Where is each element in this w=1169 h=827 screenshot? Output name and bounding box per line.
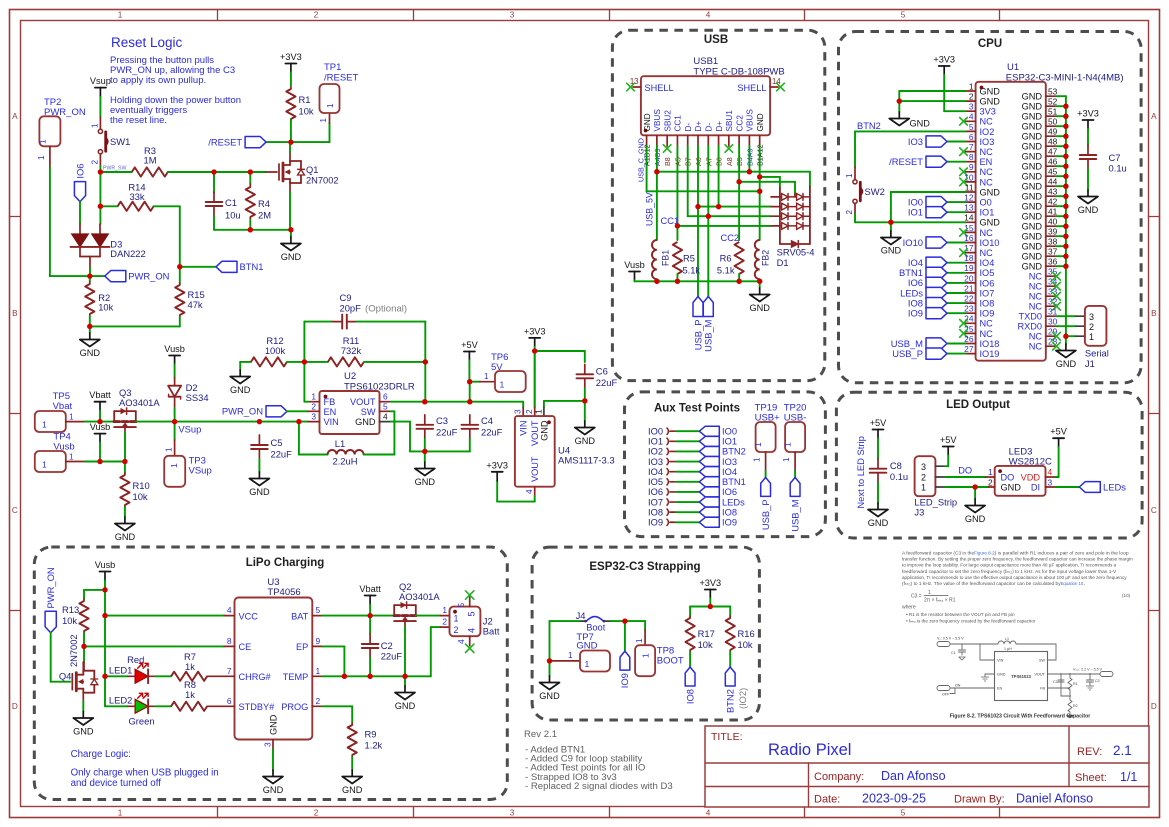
wire VSup rail to C5 [175,421,260,423]
global label IO3 aux [699,457,737,467]
global label LEDs cpu [900,287,965,298]
svg-text:10k: 10k [62,615,77,626]
svg-text:CC2: CC2 [735,115,744,132]
test point TP12 IO3 [648,457,699,467]
svg-text:IO3: IO3 [980,137,995,147]
wire +5V to J3 pin3 [947,456,949,467]
svg-text:GND: GND [1022,112,1043,122]
svg-text:EN: EN [997,687,1003,691]
test point TP14 IO5 [648,477,699,487]
transistor Q2 [394,581,440,627]
wire EP to TEMP [322,645,344,647]
wire +3V3 to C6 [535,350,585,352]
svg-text:8: 8 [227,636,232,646]
svg-text:52: 52 [1048,97,1058,107]
svg-text:22uF: 22uF [481,427,503,438]
svg-text:3: 3 [263,742,273,747]
svg-text:GND: GND [980,187,1001,197]
svg-text:PWR_SW: PWR_SW [103,165,126,171]
svg-text:C7: C7 [1109,152,1121,163]
svg-text:BOOT: BOOT [657,656,684,667]
svg-text:IO5: IO5 [648,477,663,487]
svg-text:R17: R17 [698,628,715,639]
svg-text:10k: 10k [133,491,148,502]
svg-text:1: 1 [165,447,174,452]
svg-text:1: 1 [921,482,926,492]
svg-text:45: 45 [1048,167,1058,177]
svg-text:100k: 100k [265,345,286,356]
wire Q1 source down [289,192,291,230]
svg-text:10k: 10k [698,639,713,650]
svg-text:Vusb: Vusb [95,560,116,570]
svg-text:D-: D- [684,123,693,132]
junction C5 top [257,419,262,424]
wire gnd node to U4 pin1 [544,400,585,402]
ground usb rail [759,281,761,288]
junction CC2 row [736,179,741,184]
wire J1 pin1 to gnd rail [1066,335,1076,337]
wire J4 right to TP8 node [611,620,625,622]
svg-text:2M: 2M [258,210,271,221]
junction CC1 [675,223,680,228]
junction VBUS right [747,169,752,174]
svg-text:IO3: IO3 [722,457,737,467]
wire C6 to gnd node [584,388,586,401]
svg-text:TP1: TP1 [324,62,341,73]
svg-text:4: 4 [706,11,711,20]
svg-text:1: 1 [311,392,316,402]
svg-text:22uF: 22uF [271,449,293,460]
svg-text:27: 27 [964,344,974,354]
svg-text:20pF: 20pF [340,302,362,313]
svg-text:GND: GND [415,477,436,487]
svg-text:USB_C_GND: USB_C_GND [637,138,646,182]
svg-text:GND: GND [115,532,136,542]
svg-text:Q1: Q1 [306,165,318,175]
pin 14 shell right [770,77,784,91]
svg-text:GND: GND [1022,232,1043,242]
svg-text:1: 1 [782,457,791,462]
junction C1 top [211,169,216,174]
wire R1 to /RESET node [290,120,292,142]
svg-text:to improve the loop stability.: to improve the loop stability. For large… [902,563,1117,568]
svg-text:LEDs: LEDs [1103,481,1126,492]
wire gnd rail R2 to R15 [90,325,180,327]
wire DO row [945,476,985,478]
svg-text:DAN222: DAN222 [110,248,145,259]
svg-text:C3: C3 [436,415,448,426]
svg-text:GND: GND [1022,242,1043,252]
global label IO0 aux [699,426,737,436]
svg-text:BAT: BAT [291,611,309,621]
wire L1 to SW pin [393,411,395,454]
test point TP5 [35,391,85,432]
svg-text:DI: DI [1031,482,1040,492]
svg-text:21: 21 [964,283,974,293]
svg-text:C1: C1 [225,197,237,208]
global label IO6 cpu [908,277,966,288]
svg-text:0.1u: 0.1u [1109,163,1127,174]
svg-text:6: 6 [969,132,974,142]
svg-text:SHELL: SHELL [737,83,766,93]
datasheet excerpt text block [902,551,1133,587]
svg-text:1: 1 [988,467,993,477]
svg-text:3: 3 [1048,478,1053,488]
wire to TP8 [625,620,645,622]
ground below Q4 [82,701,84,711]
wire gnd rail right [1056,96,1066,344]
svg-text:C3: C3 [1053,680,1058,684]
svg-text:22: 22 [964,294,974,304]
svg-text:3: 3 [1089,312,1094,322]
wire +5V to VDD [1058,447,1060,477]
wire +3V3 to R16 R17 [709,599,711,607]
svg-text:NC: NC [980,329,994,339]
svg-text:• R1 is the resistor between: • R1 is the resistor between the VOUT pi… [906,612,1015,617]
svg-text:22uF: 22uF [381,651,403,662]
svg-text:Aux Test Points: Aux Test Points [654,403,740,415]
svg-text:D1: D1 [777,257,789,268]
global label PWR_ON reset [105,271,126,282]
wire Q2 to J2 pin1 [416,615,441,617]
global label IO9 cpu [908,308,966,319]
svg-text:1: 1 [37,155,46,160]
svg-text:LiPo Charging: LiPo Charging [246,557,325,569]
svg-text:NC: NC [980,147,994,157]
hier label USB_P aux [761,477,771,496]
svg-text:GND: GND [1022,172,1043,182]
svg-text:GND: GND [980,86,1001,96]
svg-text:14: 14 [964,213,974,223]
svg-text:GND: GND [539,691,560,701]
wire R8 to U3 STDBY# [207,705,224,707]
resistor R4 [246,184,272,221]
svg-text:R16: R16 [738,628,755,639]
global label /RESET cpu [889,156,965,167]
connector J2 Batt [441,591,500,653]
svg-text:IO8: IO8 [648,507,663,517]
ground below Q1 [290,237,292,244]
global label IO1 aux [699,436,737,446]
ground below R10 [124,507,126,517]
svg-text:Batt: Batt [483,626,500,637]
svg-text:A: A [1151,112,1157,121]
global label LEDs aux [699,497,745,507]
svg-text:IO2: IO2 [648,447,663,457]
svg-text:IO8: IO8 [980,299,995,309]
svg-text:3V3: 3V3 [980,107,996,117]
svg-text:B: B [1151,309,1157,318]
junction rail FB2 [757,279,762,284]
svg-text:11: 11 [965,182,974,192]
wire to R13 [84,589,105,591]
svg-text:VBUS: VBUS [746,109,755,132]
svg-text:C: C [1151,506,1157,515]
junction D+ left [695,204,700,209]
wire VSup rail to VIN node [259,421,299,423]
svg-text:Radio Pixel: Radio Pixel [768,741,851,759]
test point TP17 IO8 [648,507,699,517]
svg-text:1: 1 [169,463,179,468]
svg-text:GND: GND [910,119,931,129]
svg-text:33k: 33k [129,191,144,202]
svg-text:D+: D+ [694,121,703,132]
global label /RESET [208,136,291,147]
wire TP2 down to PWR_ON row [49,167,51,276]
wire C1 to bottom rail [213,216,215,230]
capacitor C1 [206,192,241,221]
wire C8 to gnd [877,483,879,503]
svg-text:IO9: IO9 [908,308,923,319]
wire Q3 to VSup node [136,421,175,423]
junction R4 top [248,169,253,174]
svg-text:to apply its own pullup.: to apply its own pullup. [110,75,206,86]
svg-text:GND: GND [1022,222,1043,232]
test point TP1 [319,62,359,123]
svg-text:GND: GND [980,97,1001,107]
svg-text:+3V3: +3V3 [699,578,721,588]
ground cpu top left [889,112,930,129]
svg-text:(fₕₕ₂) to 1 kHz. The value of: (fₕₕ₂) to 1 kHz. The value of the feedfo… [902,581,1061,586]
capacitor C8 [870,459,908,483]
svg-text:Drawn By:: Drawn By: [954,794,1005,806]
svg-text:Vbatt: Vbatt [89,390,111,400]
svg-text:USB_M: USB_M [789,499,800,531]
wire VCC node to U3 [105,615,225,617]
svg-text:1k: 1k [185,689,195,700]
junction rail FB1 [654,279,659,284]
junction GND D1 [757,174,762,179]
svg-text:GND: GND [749,303,770,313]
svg-text:Dan Afonso: Dan Afonso [881,769,946,783]
junction pin2 gnd [897,98,902,103]
svg-text:application, TI recommends to: application, TI recommends to use the ef… [902,575,1127,580]
hier label USB_M usb block [703,297,714,352]
svg-text:TEMP: TEMP [283,672,309,682]
svg-text:38: 38 [1048,237,1058,247]
resistor R3 [132,145,168,177]
junction VBUS left [654,169,659,174]
capacitor C9 loop [304,292,425,362]
resistor R14 [100,182,153,211]
svg-text:C3 =: C3 = [911,594,922,600]
wire Vusb rail down [104,590,106,616]
svg-text:1/1: 1/1 [1120,770,1137,784]
svg-text:1k: 1k [185,661,195,672]
ic U2 TPS61023DRLR [308,371,415,434]
dashed group LED Output [836,392,1142,538]
wire pin1 pin2 gnd [899,91,965,112]
svg-text:1: 1 [500,380,505,390]
wire C7 to gnd [1087,169,1089,190]
wire R14 to BTN1 node [154,205,180,207]
svg-text:+5V: +5V [870,418,887,428]
svg-text:IO7: IO7 [648,497,663,507]
svg-text:and device turned off: and device turned off [71,778,162,789]
test point TP10 IO1 [648,437,699,447]
junction strapping +3V3 [708,604,713,609]
svg-text:NC: NC [1029,332,1043,342]
svg-text:PWR_ON: PWR_ON [45,567,56,608]
svg-text:36: 36 [1048,257,1058,267]
wire IO6 to D3 anode left [79,202,81,224]
svg-text:TXD0: TXD0 [1019,312,1043,322]
svg-text:3: 3 [921,462,926,472]
wire TP20 to USB_M [794,471,796,477]
junction C3 top [422,399,427,404]
junction CE node [81,644,86,649]
wire U2 GND pin to rail [391,421,410,423]
svg-text:BTN1: BTN1 [240,261,264,272]
svg-text:NC: NC [1029,272,1043,282]
svg-text:VOUT: VOUT [530,456,540,482]
svg-text:C4: C4 [481,415,493,426]
svg-text:4: 4 [456,639,466,644]
svg-text:VDD: VDD [1021,472,1041,482]
svg-text:GND: GND [269,714,279,735]
svg-text:Date:: Date: [814,794,840,806]
svg-text:/RESET: /RESET [889,156,923,167]
wire R12 to R11 [287,361,328,363]
svg-text:IO3: IO3 [908,136,923,147]
junction +3V3 U4 [532,348,537,353]
ic U3 TP4056 [225,577,323,750]
wire C1 vertical [213,172,215,193]
svg-text:A feedforward capacitor (C3 in: A feedforward capacitor (C3 in the [902,551,975,556]
wire R3 to C1 node [168,171,214,173]
svg-text:3: 3 [510,808,515,817]
svg-text:IO1: IO1 [648,437,663,447]
dashed group LiPo Charging [34,547,507,800]
svg-text:R6: R6 [720,254,732,264]
svg-text:Sheet:: Sheet: [1075,772,1107,784]
wire VBUS to FB1 [656,172,658,240]
svg-text:4: 4 [466,628,476,633]
svg-text:1: 1 [641,653,651,658]
svg-text:3: 3 [969,102,974,112]
svg-text:VOUT: VOUT [350,397,376,407]
svg-text:IO6: IO6 [980,278,995,288]
svg-text:R2: R2 [1073,704,1078,708]
capacitor C7 [1080,145,1127,174]
svg-text:IO18: IO18 [980,339,1000,349]
svg-text:BTN2: BTN2 [857,121,881,131]
wire R2 to gnd rail [89,316,91,326]
wire FB loop down [303,362,305,402]
svg-text:where: where [902,605,916,611]
svg-text:5.1k: 5.1k [717,266,735,276]
svg-text:+5V: +5V [461,340,478,350]
wire J4 left to TP7 node [550,620,580,622]
svg-text:NC: NC [980,117,994,127]
svg-text:AO3401A: AO3401A [399,591,440,602]
svg-text:+3V3: +3V3 [524,326,546,336]
wire Q2 gate down [404,627,406,677]
wire R13 to CE node [83,633,85,646]
wire +5V to C8 [877,439,879,459]
svg-text:+3V3: +3V3 [1077,109,1099,119]
svg-text:4: 4 [227,605,232,615]
svg-text:18: 18 [964,253,974,263]
svg-text:2023-09-25: 2023-09-25 [862,792,926,806]
svg-text:GND: GND [575,436,596,446]
resistor R2 [85,282,113,316]
svg-text:NC: NC [980,228,994,238]
svg-text:GND: GND [355,417,376,427]
svg-text:GND: GND [73,727,94,737]
svg-text:5: 5 [901,808,906,817]
svg-text:EP: EP [296,642,308,652]
svg-text:2: 2 [969,92,974,102]
test point TP19 [753,403,781,472]
resistor R1 [286,87,314,121]
svg-text:4: 4 [706,808,711,817]
svg-text:1: 1 [753,442,763,447]
svg-text:NC: NC [980,177,994,187]
svg-text:GND: GND [643,113,652,131]
svg-text:(Optional): (Optional) [365,304,407,315]
svg-text:A8: A8 [725,157,734,166]
svg-text:5: 5 [456,603,466,608]
junction TP4 Vusb [97,459,102,464]
wire R15 to gnd rail [179,317,181,326]
svg-text:49: 49 [1048,127,1058,137]
wire +3V3 to R1 [290,73,292,87]
wire R4 node to Q1 gate [250,171,266,173]
global label IO10 cpu [903,237,966,248]
svg-text:6: 6 [383,392,388,402]
svg-text:GND: GND [1022,192,1043,202]
resistor R9 [348,723,383,757]
junction Q1 source rail [288,227,293,232]
svg-text:4: 4 [1048,467,1053,477]
junction C3 bottom [422,449,427,454]
svg-text:20: 20 [964,273,974,283]
svg-text:14: 14 [772,77,781,86]
svg-text:IO0: IO0 [722,427,737,437]
test point TP13 IO4 [648,467,699,477]
svg-text:10k: 10k [98,302,113,313]
junction R10 top [122,459,127,464]
junction R11 left [302,359,307,364]
svg-text:CE: CE [239,642,252,652]
svg-text:1: 1 [326,103,335,108]
hier label BTN2 strapping [725,652,749,713]
svg-text:SW1: SW1 [110,136,130,147]
svg-text:2.2uH: 2.2uH [332,456,357,467]
ground below Q2 [404,676,406,686]
svg-text:5: 5 [969,122,974,132]
svg-text:1: 1 [442,605,447,615]
svg-text:NC: NC [980,319,994,329]
svg-text:R13: R13 [62,604,79,615]
svg-text:8: 8 [969,152,974,162]
junction VSup [172,419,177,424]
svg-text:BTN1: BTN1 [722,477,746,487]
capacitor C4 [462,415,503,439]
svg-text:GND: GND [1022,212,1043,222]
svg-text:R5: R5 [683,254,695,264]
wire SW1 to R14 node [99,172,101,206]
ground below C5 [258,459,260,472]
svg-text:GND: GND [342,785,363,795]
junction rail R6 [736,279,741,284]
svg-text:1: 1 [1089,332,1094,342]
svg-text:2N7002: 2N7002 [306,176,339,186]
wire PWR_ON down to Q4 gate [50,633,52,682]
global label BTN1 aux [699,477,745,487]
svg-text:) is parallel with R1 induces: ) is parallel with R1 induces a pair of … [995,551,1129,556]
